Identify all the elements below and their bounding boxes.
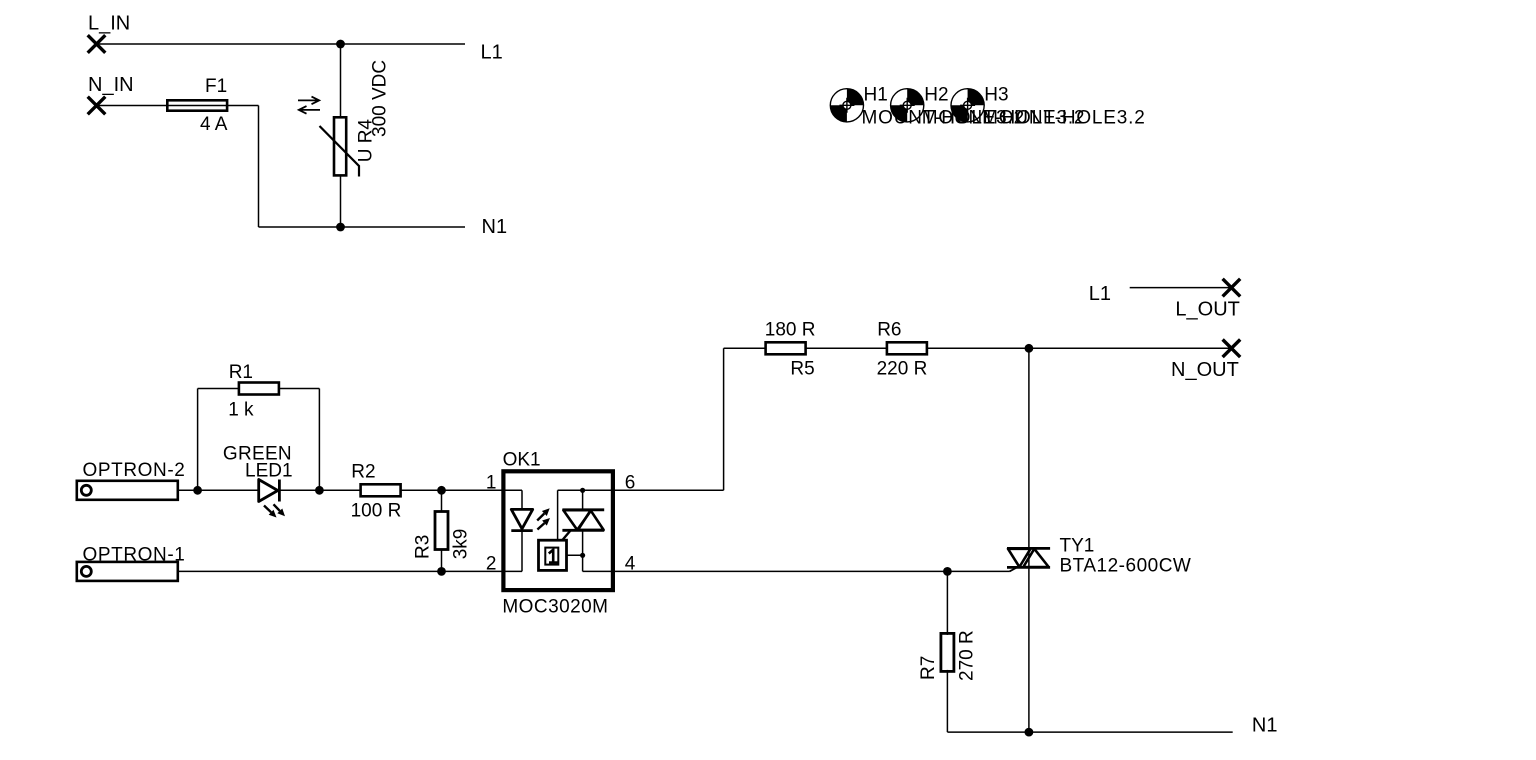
triac TY1 — [1007, 547, 1050, 550]
IC OK1 box — [503, 471, 613, 590]
svg-text:N1: N1 — [482, 216, 508, 238]
resistor R3 — [435, 512, 448, 550]
svg-text:H3: H3 — [984, 84, 1008, 105]
svg-text:L_IN: L_IN — [88, 13, 130, 35]
connector OPTRON-1 — [77, 562, 178, 581]
junction node H — [943, 567, 952, 576]
svg-text:F1: F1 — [205, 76, 227, 97]
junction node B — [315, 486, 324, 495]
junction node E — [580, 488, 585, 493]
wire driver to node F — [567, 554, 583, 556]
svg-text:300 VDC: 300 VDC — [370, 60, 391, 137]
fuse F1 body — [167, 100, 227, 110]
junction node G — [1025, 344, 1034, 353]
junction node L1-top — [336, 40, 345, 49]
svg-text:L_OUT: L_OUT — [1175, 298, 1239, 320]
terminal X L_IN — [88, 35, 106, 53]
svg-text:R2: R2 — [351, 462, 375, 483]
wire N_IN to fuse — [97, 105, 168, 107]
wire to driver box — [557, 490, 559, 540]
wire OPTRON-1 to pin 2 — [179, 570, 503, 572]
wire L1 to L_OUT — [1130, 287, 1232, 289]
svg-text:4 A: 4 A — [200, 114, 228, 135]
varistor R4 bottom wire — [340, 175, 342, 227]
svg-text:1: 1 — [486, 472, 497, 493]
LED1 emission arrows — [264, 506, 271, 513]
svg-text:180 R: 180 R — [765, 320, 816, 341]
varistor R4 diagonal — [320, 126, 360, 177]
mount hole H3 — [951, 89, 984, 122]
svg-text:R6: R6 — [877, 320, 901, 341]
resistor R2 — [361, 484, 401, 496]
wire R1 right leg — [280, 388, 320, 390]
svg-text:BTA12-600CW: BTA12-600CW — [1060, 556, 1192, 577]
wire pin 4 to gate — [583, 570, 1010, 572]
resistor R5 — [766, 342, 806, 354]
LED LED1 symbol — [259, 480, 278, 502]
mount hole H2 — [891, 89, 924, 122]
connector OPTRON-2 — [77, 481, 178, 500]
wire R3 bottom — [441, 549, 443, 571]
wire R7 bottom — [946, 670, 948, 732]
wire L_IN to L1 — [97, 43, 466, 45]
terminal X N_IN — [88, 97, 106, 115]
junction node I — [1025, 728, 1034, 737]
gate diagonal — [1010, 567, 1018, 571]
svg-text:R3: R3 — [413, 535, 434, 559]
wire R3 top — [441, 490, 443, 512]
wire N1 rail — [341, 226, 466, 228]
OK1 internal LED — [521, 490, 523, 509]
OK1 internal triac — [582, 490, 584, 510]
wire R7 top — [946, 571, 948, 635]
resistor R7 — [941, 633, 954, 671]
svg-text:H1: H1 — [864, 84, 888, 105]
wire R1 left leg — [197, 389, 199, 491]
svg-text:270 R: 270 R — [957, 630, 978, 681]
svg-text:H2: H2 — [924, 84, 948, 105]
svg-text:LED1: LED1 — [245, 460, 293, 481]
wire A to LED1 — [198, 489, 259, 491]
varistor R4 body — [334, 117, 346, 175]
wire triac down — [1028, 567, 1030, 732]
junction node C — [437, 486, 446, 495]
wire R5 to R6 — [806, 347, 887, 349]
svg-text:R5: R5 — [790, 358, 814, 379]
wire OPTRON-2 pin — [179, 489, 198, 491]
svg-text:MOUNT-HOLE3.2: MOUNT-HOLE3.2 — [982, 108, 1146, 129]
terminal X N_OUT — [1223, 340, 1241, 358]
svg-text:R7: R7 — [918, 656, 939, 680]
OK1 detector top wire — [558, 489, 612, 491]
svg-text:N1: N1 — [1252, 714, 1278, 736]
driver symbol 1 — [545, 548, 558, 565]
wire R6 to N_OUT — [927, 347, 1232, 349]
junction node A — [193, 486, 202, 495]
wire OK1 pin 2 out — [503, 570, 522, 572]
junction node D — [437, 567, 446, 576]
OK1 driver box — [539, 540, 567, 570]
OK1 coupling arrows — [537, 514, 544, 521]
svg-text:L1: L1 — [481, 42, 503, 64]
svg-text:2: 2 — [486, 554, 497, 575]
svg-text:3k9: 3k9 — [451, 529, 472, 560]
mount hole H1 — [830, 89, 863, 122]
wire fuse to N1 rail — [227, 105, 258, 107]
svg-text:R1: R1 — [229, 362, 253, 383]
terminal X L_OUT — [1223, 279, 1241, 297]
svg-text:N_IN: N_IN — [88, 74, 134, 96]
svg-text:MOC3020M: MOC3020M — [502, 596, 608, 617]
svg-text:L1: L1 — [1089, 283, 1111, 305]
wire R2 to OK1 pin 1 — [401, 489, 522, 491]
wire LED1 to R2 — [279, 489, 360, 491]
wire N1 bottom rail — [947, 731, 1232, 733]
wire main vertical — [1028, 348, 1030, 548]
junction node F — [580, 553, 585, 558]
svg-text:220 R: 220 R — [877, 358, 928, 379]
svg-text:TY1: TY1 — [1060, 536, 1095, 557]
wire node F to pin 4 — [582, 555, 584, 571]
varistor R4 arrows — [298, 97, 320, 105]
svg-text:OPTRON-2: OPTRON-2 — [83, 460, 186, 481]
resistor R1 — [239, 383, 279, 395]
wire pin 6 out — [613, 489, 724, 491]
svg-text:100 R: 100 R — [351, 500, 402, 521]
varistor R4 top wire — [340, 44, 342, 117]
junction node N1-top — [336, 223, 345, 232]
svg-text:1 k: 1 k — [228, 399, 254, 420]
OK1 gate diagonal — [562, 531, 571, 541]
svg-text:OK1: OK1 — [503, 449, 541, 470]
svg-text:N_OUT: N_OUT — [1171, 359, 1239, 381]
resistor R6 — [887, 342, 927, 354]
